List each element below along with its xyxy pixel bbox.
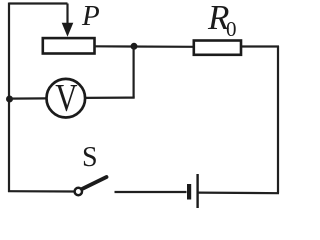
potentiometer wiper arrow xyxy=(62,23,74,37)
switch S pivot contact xyxy=(75,188,82,195)
svg-text:S: S xyxy=(82,142,98,173)
battery negative plate (short thick) xyxy=(187,184,191,200)
wire voltmeter right horizontal xyxy=(86,96,135,99)
wire right rail vertical xyxy=(277,46,279,193)
svg-text:P: P xyxy=(81,0,100,32)
potentiometer P body xyxy=(43,38,95,53)
wire mid horizontal (P right terminal to R0 through node) xyxy=(94,45,194,48)
node junction dot (wiper net / voltmeter tap) xyxy=(131,43,138,50)
wire bottom-middle horizontal (switch to battery) xyxy=(115,191,187,193)
wire bottom-left horizontal (to switch pivot) xyxy=(8,190,74,193)
voltmeter V circle xyxy=(47,79,86,118)
wire left rail vertical xyxy=(8,3,10,193)
wire voltmeter riser (node down to voltmeter) xyxy=(133,46,135,97)
switch S lever (open) xyxy=(82,177,107,189)
resistor R0 body xyxy=(194,41,241,55)
node dot on left rail (voltmeter tap) xyxy=(6,96,13,103)
wire bottom-right horizontal (battery to right rail) xyxy=(199,192,280,195)
svg-text:0: 0 xyxy=(226,17,237,41)
battery positive plate (long thin) xyxy=(196,174,198,208)
wire top-left horizontal (node A to wiper branch) xyxy=(9,2,68,4)
wire wiper drop (top wire down to arrow) xyxy=(66,4,68,25)
wire top-right horizontal (R0 to right rail) xyxy=(241,45,279,47)
svg-text:V: V xyxy=(55,76,77,119)
wire voltmeter left horizontal xyxy=(10,97,47,99)
